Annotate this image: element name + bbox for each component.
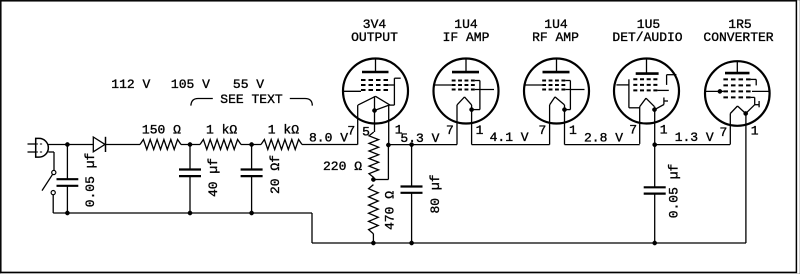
- svg-text:40 µf: 40 µf: [206, 158, 221, 197]
- svg-text:CONVERTER: CONVERTER: [703, 30, 773, 45]
- svg-text:1: 1: [569, 123, 577, 138]
- svg-text:105 V: 105 V: [171, 77, 210, 92]
- svg-text:0.05 µf: 0.05 µf: [667, 164, 682, 219]
- svg-text:7: 7: [446, 123, 454, 138]
- svg-text:SEE TEXT: SEE TEXT: [220, 92, 283, 107]
- svg-text:220 Ω: 220 Ω: [323, 159, 362, 174]
- svg-text:8.0 V: 8.0 V: [309, 130, 348, 145]
- svg-text:7: 7: [629, 123, 637, 138]
- svg-text:1: 1: [476, 123, 484, 138]
- svg-text:1 kΩ: 1 kΩ: [206, 123, 237, 138]
- svg-text:5.3 V: 5.3 V: [400, 131, 439, 146]
- svg-text:55 V: 55 V: [233, 77, 264, 92]
- svg-text:4.1 V: 4.1 V: [490, 130, 529, 145]
- svg-text:20 Ωf: 20 Ωf: [268, 155, 283, 194]
- svg-text:112 V: 112 V: [111, 77, 150, 92]
- svg-text:5: 5: [362, 125, 370, 140]
- svg-text:1: 1: [395, 123, 403, 138]
- svg-text:0.05 µf: 0.05 µf: [83, 153, 98, 208]
- svg-text:OUTPUT: OUTPUT: [351, 30, 398, 45]
- svg-text:2.8 V: 2.8 V: [584, 131, 623, 146]
- svg-text:150 Ω: 150 Ω: [142, 123, 181, 138]
- svg-text:1: 1: [751, 123, 759, 138]
- svg-text:IF AMP: IF AMP: [443, 30, 490, 45]
- svg-text:1.3 V: 1.3 V: [675, 130, 714, 145]
- svg-text:7: 7: [347, 124, 355, 139]
- svg-text:DET/AUDIO: DET/AUDIO: [612, 30, 682, 45]
- svg-text:7: 7: [539, 123, 547, 138]
- svg-text:470 Ω: 470 Ω: [383, 191, 398, 230]
- svg-text:RF AMP: RF AMP: [532, 30, 579, 45]
- svg-text:1 kΩ: 1 kΩ: [268, 123, 299, 138]
- svg-text:80 µf: 80 µf: [428, 174, 443, 213]
- svg-text:1: 1: [660, 122, 668, 137]
- svg-text:7: 7: [720, 125, 728, 140]
